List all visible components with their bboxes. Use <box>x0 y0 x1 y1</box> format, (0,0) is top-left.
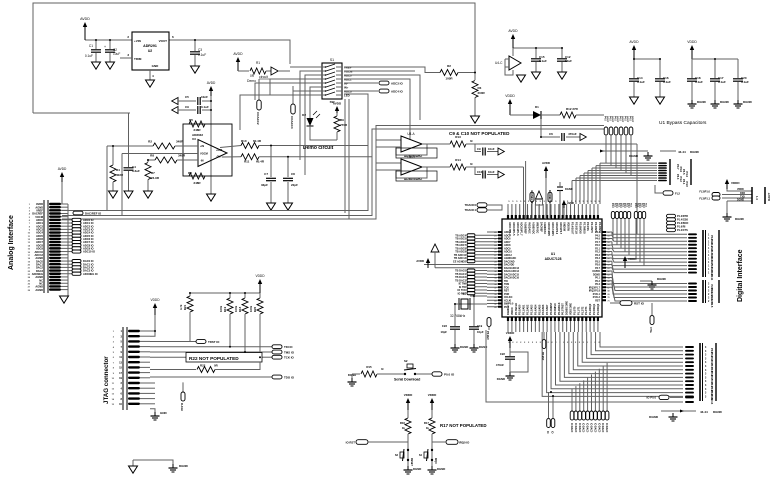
net label TRST bottom <box>346 440 408 445</box>
svg-text:ADCNEGTE: ADCNEGTE <box>530 190 533 204</box>
svg-text:70: 70 <box>608 297 610 299</box>
wire bus B <box>62 129 604 216</box>
svg-text:30: 30 <box>494 265 496 267</box>
power flag VDDD pullups <box>255 274 265 293</box>
svg-text:SOUT: SOUT <box>626 116 628 123</box>
capacitor C19 10pF <box>469 324 484 344</box>
net flag flash gnd <box>180 382 185 411</box>
svg-text:P4.0: P4.0 <box>609 116 612 121</box>
resistor R9 270R <box>334 113 348 140</box>
svg-text:P1.3/T3: P1.3/T3 <box>585 306 588 315</box>
svg-text:P0.1: P0.1 <box>504 306 510 309</box>
svg-text:100k: 100k <box>219 305 223 312</box>
svg-text:R10: R10 <box>241 139 247 143</box>
svg-text:P3.5/AD5: P3.5/AD5 <box>538 304 541 315</box>
svg-text:R21: R21 <box>183 304 187 310</box>
ground C7 <box>267 203 276 210</box>
ground S4 <box>428 466 446 474</box>
capacitor C22 470nF <box>496 348 515 372</box>
label R22 not populated <box>186 353 262 363</box>
svg-text:DGND: DGND <box>460 345 468 349</box>
svg-text:AVDD: AVDD <box>58 167 67 171</box>
svg-text:AVDD: AVDD <box>567 202 574 205</box>
svg-text:FL3/P1.1: FL3/P1.1 <box>699 197 710 201</box>
svg-text:68: 68 <box>608 291 610 293</box>
svg-text:25: 25 <box>494 248 496 250</box>
svg-text:10pF: 10pF <box>440 330 447 334</box>
capacitor C10 10nF <box>475 167 504 179</box>
svg-text:VOCM: VOCM <box>200 152 208 156</box>
svg-text:P0.3/TRST: P0.3/TRST <box>562 303 565 315</box>
net label TDI <box>272 345 293 349</box>
wire vddd bypass rail <box>692 59 738 78</box>
ground c12 <box>558 72 567 79</box>
svg-text:R6: R6 <box>188 171 192 175</box>
svg-text:0.1uF: 0.1uF <box>637 80 645 84</box>
ground opamp <box>207 194 216 201</box>
svg-text:42: 42 <box>494 303 496 306</box>
svg-text:43-44: 43-44 <box>700 410 708 414</box>
svg-text:VDDD: VDDD <box>506 331 515 335</box>
svg-text:IO DAC0: IO DAC0 <box>574 423 577 433</box>
svg-text:VDDD: VDDD <box>404 393 413 397</box>
svg-text:P2.6/MOSI: P2.6/MOSI <box>578 222 581 234</box>
svg-text:VDDD: VDDD <box>150 298 160 302</box>
svg-text:60.4R: 60.4R <box>256 160 265 164</box>
power flag AVDD (regulator input) <box>80 17 90 40</box>
svg-text:P0.0 IO: P0.0 IO <box>444 373 455 377</box>
svg-text:23: 23 <box>494 242 496 244</box>
connector G3 bars <box>703 280 719 308</box>
wire regulator input rail <box>85 39 132 41</box>
svg-text:U1 Bypass Capacitors: U1 Bypass Capacitors <box>659 120 707 126</box>
capacitor C8 22pF <box>283 157 298 203</box>
svg-text:P4.0: P4.0 <box>629 116 632 121</box>
power flag VDDD d1 <box>505 94 515 115</box>
svg-text:P3.3/AD3: P3.3/AD3 <box>530 304 533 315</box>
svg-text:C1: C1 <box>89 44 93 48</box>
net label TDO <box>272 375 295 379</box>
power flag VDDD R16 <box>404 393 413 410</box>
svg-text:1-4: 1-4 <box>755 196 759 200</box>
ground C22 <box>497 372 515 381</box>
svg-text:R12 27R: R12 27R <box>566 107 579 111</box>
svg-text:P3.0: P3.0 <box>615 203 617 208</box>
svg-text:P3.6/AD6: P3.6/AD6 <box>542 304 545 315</box>
svg-text:40: 40 <box>494 296 496 299</box>
svg-text:24.9R: 24.9R <box>151 176 160 180</box>
svg-text:R19: R19 <box>223 306 227 312</box>
IC U1 ADuC7128 outline <box>502 219 602 317</box>
svg-text:200R: 200R <box>478 91 486 95</box>
svg-text:DAC/REF IO: DAC/REF IO <box>85 211 102 215</box>
ground C23 <box>451 344 469 352</box>
capacitor C12 10uF <box>557 48 572 72</box>
svg-text:AGNDDAC: AGNDDAC <box>543 222 546 234</box>
svg-text:4.7k: 4.7k <box>179 304 183 310</box>
connector UART bars <box>752 187 771 204</box>
net label ADC4 IO <box>379 89 403 93</box>
net label FL2 <box>655 185 680 196</box>
svg-text:IRQ0 IO: IRQ0 IO <box>459 441 470 445</box>
svg-text:P3.0: P3.0 <box>619 203 621 208</box>
svg-text:R3: R3 <box>478 86 482 90</box>
wire S1 left fan <box>240 67 314 175</box>
svg-text:1k: 1k <box>426 426 430 430</box>
buffer arrow demo <box>266 67 290 75</box>
svg-text:ADR291: ADR291 <box>143 44 157 48</box>
svg-text:P0.7/ECLK: P0.7/ECLK <box>515 303 518 315</box>
net label DAC/REF IO <box>73 211 102 215</box>
wire TDI row <box>150 330 272 347</box>
wire top border net <box>33 3 475 113</box>
wire S1 ADC3 row <box>344 82 378 84</box>
wire IC bottom to G4 staircase <box>542 332 694 397</box>
switch S2 serial download <box>394 359 432 382</box>
power flag VDDD jtag <box>150 298 160 336</box>
svg-text:C6: C6 <box>549 132 553 136</box>
svg-text:TMS IO: TMS IO <box>284 351 295 355</box>
svg-text:348R: 348R <box>178 154 186 158</box>
svg-text:P1.0/T0: P1.0/T0 <box>573 306 576 315</box>
svg-text:VDDD: VDDD <box>628 257 637 261</box>
net label IO P0.0 <box>647 395 694 399</box>
capacitor C20 0.1uF <box>733 76 749 100</box>
svg-text:DGND: DGND <box>713 410 723 414</box>
resistor R7 24.9R <box>145 163 160 192</box>
IC U1 left pins <box>487 231 520 309</box>
svg-text:-OUT: -OUT <box>216 157 222 159</box>
resistor R5 348R top <box>189 118 205 132</box>
svg-text:270R: 270R <box>340 123 348 127</box>
resistor R3 200R <box>472 73 486 117</box>
wire P0 long L <box>486 330 694 403</box>
bottom net flag row <box>570 363 609 433</box>
svg-text:32.768kHz: 32.768kHz <box>450 314 466 318</box>
svg-text:DACREF: DACREF <box>539 222 542 233</box>
svg-text:P3.7/AD7: P3.7/AD7 <box>546 304 549 315</box>
svg-text:0R: 0R <box>250 74 255 78</box>
wire bus C <box>62 126 604 220</box>
svg-text:COAXC2: COAXC2 <box>256 112 260 125</box>
svg-text:AVDD: AVDD <box>629 40 639 44</box>
svg-text:U4-A: U4-A <box>407 132 415 136</box>
resistor R13 0R <box>433 135 637 234</box>
svg-text:R1: R1 <box>256 61 260 65</box>
ground serial dl <box>348 373 361 386</box>
svg-text:P1.1/T1: P1.1/T1 <box>577 306 580 315</box>
svg-text:0.1uF: 0.1uF <box>718 80 726 84</box>
svg-text:C8: C8 <box>291 172 295 176</box>
svg-text:41: 41 <box>494 299 496 302</box>
vref triangle above ic <box>536 191 543 219</box>
svg-text:P4.0: P4.0 <box>619 116 622 121</box>
resistor R21 4.7k <box>179 293 193 342</box>
svg-text:AVDDADC: AVDDADC <box>528 222 531 234</box>
svg-text:C9: C9 <box>477 147 481 151</box>
svg-text:0.1uF: 0.1uF <box>695 80 703 84</box>
svg-text:P1.4/IRQ0: P1.4/IRQ0 <box>589 303 592 315</box>
svg-text:R14: R14 <box>455 158 461 162</box>
svg-text:ADC0/CMP0: ADC0/CMP0 <box>547 222 550 236</box>
net label IRQ0 <box>432 440 470 445</box>
resistor R6 348R bottom <box>188 171 205 185</box>
wire vertical above ic <box>525 161 527 219</box>
svg-text:32: 32 <box>494 271 496 273</box>
svg-text:S3: S3 <box>395 453 399 457</box>
svg-text:R2: R2 <box>148 140 152 144</box>
net labels P1 options <box>667 214 689 232</box>
svg-text:P4.0/SS: P4.0/SS <box>586 222 589 231</box>
svg-text:DACREFTE: DACREFTE <box>548 190 551 203</box>
svg-text:P3.1/AD1: P3.1/AD1 <box>523 304 526 315</box>
svg-text:U4-B: U4-B <box>407 155 414 159</box>
svg-text:P3.0: P3.0 <box>638 203 640 208</box>
svg-text:22: 22 <box>494 239 496 241</box>
svg-text:TB RST: TB RST <box>541 352 543 361</box>
svg-text:+OUT: +OUT <box>216 150 223 152</box>
net label P0.0 IO <box>432 372 455 377</box>
ground C14 <box>630 97 639 104</box>
wire in+ feed <box>106 146 108 211</box>
svg-text:VDDIO: VDDIO <box>511 307 514 315</box>
svg-text:DGND: DGND <box>437 467 445 471</box>
svg-text:0.1uF: 0.1uF <box>539 59 547 63</box>
ground R3 <box>471 116 480 123</box>
svg-text:1k: 1k <box>402 426 406 430</box>
svg-text:P1.11: P1.11 <box>710 274 714 281</box>
svg-text:DGND: DGND <box>690 150 700 154</box>
svg-text:22pF: 22pF <box>291 183 298 187</box>
wire opamp out top <box>220 146 241 158</box>
svg-text:348R: 348R <box>193 181 201 185</box>
capacitor C7 33pF <box>261 146 276 204</box>
wire vocm feed vertical <box>121 154 123 216</box>
net flag xtal <box>649 303 654 334</box>
regulator U2 ADR291 box <box>127 32 174 70</box>
ground C1 <box>92 62 101 69</box>
capacitor C13 above ic <box>557 182 573 219</box>
ferrite beads FB1-FB6 <box>604 116 634 176</box>
svg-text:R5: R5 <box>189 118 193 122</box>
svg-text:ADC1/CMP1: ADC1/CMP1 <box>551 222 554 236</box>
svg-text:10uF: 10uF <box>565 59 572 63</box>
svg-text:D1: D1 <box>535 105 539 109</box>
wire d1 row <box>510 114 533 116</box>
wire S1 VREF to R2 <box>344 67 440 73</box>
svg-text:0.1uF: 0.1uF <box>741 80 749 84</box>
svg-text:SOUT: SOUT <box>631 116 633 123</box>
resistor R11 60.4R <box>241 154 372 164</box>
svg-text:28: 28 <box>494 258 496 260</box>
svg-text:P3.0: P3.0 <box>627 203 629 208</box>
resistor R8 348R in- <box>148 154 198 164</box>
svg-text:DGND: DGND <box>413 467 421 471</box>
svg-text:10nF: 10nF <box>488 147 495 151</box>
svg-text:35: 35 <box>494 281 496 283</box>
ground c15 <box>532 72 541 79</box>
svg-text:DGNDCORE: DGNDCORE <box>566 301 569 315</box>
svg-text:ADC3 IO: ADC3 IO <box>391 81 403 85</box>
coax connector J1 <box>256 79 261 125</box>
wire DACGND long <box>424 264 487 266</box>
svg-text:TDACK0: TDACK0 <box>465 203 477 207</box>
svg-text:Digital Interface: Digital Interface <box>737 249 744 302</box>
ground U2 <box>146 80 155 87</box>
svg-text:P0.5/MISO: P0.5/MISO <box>554 303 557 315</box>
resistor R22 0R <box>150 362 260 373</box>
op-amp U4-C <box>495 48 562 75</box>
net flag pair bottom left <box>541 332 555 434</box>
svg-text:AVDD: AVDD <box>542 161 550 165</box>
resistor R16 <box>400 410 411 466</box>
svg-text:S2: S2 <box>404 359 408 363</box>
svg-text:R22 NOT POPULATED: R22 NOT POPULATED <box>189 356 239 361</box>
resistor R10 60.4R <box>241 139 368 149</box>
svg-text:69: 69 <box>608 294 610 296</box>
svg-text:CE AGNDS: CE AGNDS <box>453 260 466 263</box>
ground jtag <box>151 411 168 420</box>
svg-text:-IN: -IN <box>200 158 204 162</box>
net label ADC3 IO <box>379 81 403 85</box>
net label FL3/P1.0 <box>699 190 720 197</box>
svg-text:ADC3/P0.7: ADC3/P0.7 <box>559 222 562 235</box>
wire TCK row <box>150 330 272 357</box>
svg-text:10nF: 10nF <box>488 170 495 174</box>
svg-text:Demo: Demo <box>247 79 256 83</box>
svg-text:470nF: 470nF <box>496 363 504 367</box>
svg-text:FL3/P1.0: FL3/P1.0 <box>699 190 710 194</box>
wire avdd opamp <box>207 81 216 194</box>
power flag VDDD uart <box>725 179 741 189</box>
power flag AVDD tall above ic <box>542 161 550 219</box>
svg-text:0.1uF: 0.1uF <box>663 80 671 84</box>
ground analog connector <box>60 296 69 303</box>
svg-text:0.1uF: 0.1uF <box>85 54 93 58</box>
wire led loop <box>310 133 337 140</box>
svg-text:402R: 402R <box>116 173 124 177</box>
wire S1 ADC4 row <box>344 90 378 92</box>
svg-text:60.4R: 60.4R <box>253 139 262 143</box>
svg-text:29: 29 <box>494 261 496 263</box>
svg-text:36: 36 <box>494 284 496 286</box>
svg-text:VDDD: VDDD <box>505 94 515 98</box>
svg-text:P1.6/IRQ2: P1.6/IRQ2 <box>597 303 600 315</box>
svg-text:P2.7/MISO: P2.7/MISO <box>582 222 585 234</box>
capacitor C18 0.1uF <box>687 76 703 100</box>
wire uart rows <box>722 188 752 213</box>
net label TCK <box>272 355 295 359</box>
svg-text:IO DAC0: IO DAC0 <box>590 423 593 433</box>
connector G4 bars <box>700 343 716 405</box>
svg-text:IO: IO <box>546 431 548 434</box>
svg-text:P4.0: P4.0 <box>614 116 617 121</box>
connector J4 JTAG <box>112 327 150 410</box>
wire c22 loop <box>510 352 528 372</box>
svg-text:RST: RST <box>595 299 600 302</box>
svg-text:R16: R16 <box>400 421 406 425</box>
svg-text:AVDD: AVDD <box>333 102 342 106</box>
svg-text:10nF: 10nF <box>201 95 208 99</box>
svg-text:20: 20 <box>494 232 496 234</box>
ground u4c <box>517 75 526 82</box>
svg-text:R2: R2 <box>447 64 451 68</box>
svg-text:P0.4/MCLK: P0.4/MCLK <box>558 302 561 315</box>
power flag AVDD ic left <box>416 244 487 268</box>
power flag AVDD bypass <box>629 40 639 59</box>
svg-text:VDDSW: VDDSW <box>567 222 570 232</box>
wire TDO row <box>150 376 272 378</box>
svg-text:AVDD: AVDD <box>416 259 424 263</box>
ground g1 <box>629 152 652 160</box>
wire S1 bottom drops <box>345 99 349 219</box>
svg-text:37: 37 <box>494 287 496 289</box>
switch S1 <box>314 58 342 104</box>
ground uart <box>723 213 745 221</box>
svg-text:R11: R11 <box>244 160 250 164</box>
resistor R20 100k <box>249 293 263 330</box>
resistor R17 <box>424 410 435 466</box>
svg-text:FL2: FL2 <box>675 192 680 196</box>
capacitor C17 0.1uF <box>710 76 726 100</box>
svg-text:U1: U1 <box>551 252 555 256</box>
resistor R2b 100R <box>440 64 475 81</box>
svg-text:IO P0.0: IO P0.0 <box>647 396 657 400</box>
label Analog Interface <box>8 215 15 270</box>
crystal T1 32.768kHz <box>450 292 487 326</box>
capacitor C14 0.1uF <box>629 76 645 97</box>
svg-text:TDI IO: TDI IO <box>284 345 293 349</box>
svg-text:P0.2E0: P0.2E0 <box>486 331 490 340</box>
svg-text:VDDD: VDDD <box>731 181 740 185</box>
ground R4 <box>109 191 118 198</box>
net labels DAC0-3 <box>68 259 98 276</box>
svg-text:C3: C3 <box>198 48 202 52</box>
svg-text:VOUT: VOUT <box>159 39 168 43</box>
svg-text:T1: T1 <box>462 292 466 296</box>
capacitor C16 0.1uF <box>655 76 671 97</box>
power flag VDDD c22 <box>506 331 515 348</box>
ground C2 <box>106 62 115 69</box>
capacitor C1 0.1uF <box>85 40 101 62</box>
svg-text:3.3uF: 3.3uF <box>132 169 140 173</box>
svg-text:P3.4/AD4: P3.4/AD4 <box>534 304 537 315</box>
net flag DACREFTE <box>548 190 552 219</box>
wire TRIM stub pin3 <box>120 57 132 59</box>
net flag ADCNEGTE <box>530 190 534 219</box>
wire jtag gnd <box>150 383 155 412</box>
net stubs TB ADC group <box>453 234 487 264</box>
svg-text:AGNDADC: AGNDADC <box>531 222 534 234</box>
svg-text:C19: C19 <box>477 324 483 328</box>
op-amp U4-A AD8606ARZ <box>376 132 437 158</box>
label 43-44 DGND g1 <box>600 150 700 155</box>
net label TRST <box>150 340 220 344</box>
svg-text:Serial Download: Serial Download <box>394 378 420 382</box>
svg-text:R4: R4 <box>116 168 120 172</box>
svg-text:JTAG connector: JTAG connector <box>103 356 110 404</box>
svg-text:IO DAC0: IO DAC0 <box>597 423 600 433</box>
svg-text:IO DAC0: IO DAC0 <box>586 423 589 433</box>
svg-text:10uF: 10uF <box>113 52 120 56</box>
svg-text:ADC4 IO: ADC4 IO <box>391 89 403 93</box>
pullup rail jtag <box>190 292 260 294</box>
resistor R4 402R <box>110 146 124 191</box>
svg-text:DGND: DGND <box>657 277 667 281</box>
power flag AVDD analog conn <box>58 167 67 204</box>
svg-text:ADC2/P0.6: ADC2/P0.6 <box>555 222 558 235</box>
svg-text:31: 31 <box>494 268 496 270</box>
